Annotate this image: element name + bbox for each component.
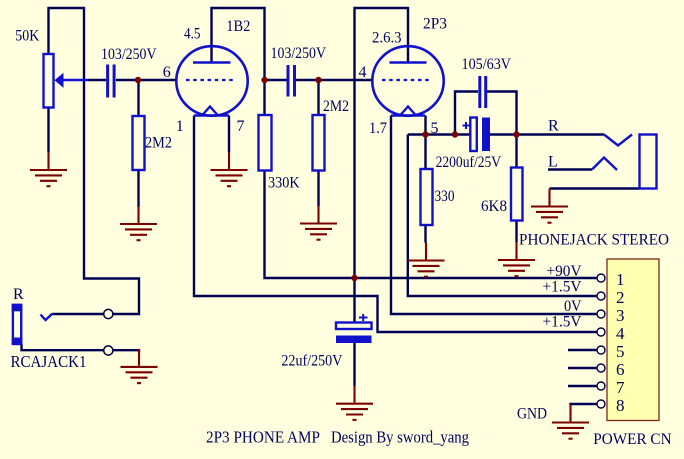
svg-text:+1.5V: +1.5V	[543, 314, 582, 331]
svg-text:50K: 50K	[15, 28, 39, 45]
svg-text:4.5: 4.5	[184, 26, 201, 43]
svg-text:330: 330	[435, 188, 455, 205]
svg-text:103/250V: 103/250V	[101, 46, 157, 63]
svg-text:+1.5V: +1.5V	[543, 278, 582, 295]
svg-text:2: 2	[616, 288, 625, 307]
svg-text:L: L	[548, 154, 558, 171]
svg-text:8: 8	[616, 396, 625, 415]
svg-text:22uf/250V: 22uf/250V	[281, 353, 342, 370]
svg-text:330K: 330K	[268, 175, 300, 192]
svg-text:0V: 0V	[564, 298, 582, 315]
svg-text:2P3 PHONE AMP: 2P3 PHONE AMP	[206, 428, 320, 447]
svg-text:2.6.3: 2.6.3	[372, 30, 402, 47]
svg-text:2M2: 2M2	[145, 135, 172, 152]
svg-text:4: 4	[616, 324, 625, 343]
svg-text:R: R	[548, 118, 559, 135]
svg-text:2P3: 2P3	[423, 16, 447, 33]
svg-text:5: 5	[431, 120, 439, 137]
svg-text:6: 6	[163, 64, 171, 81]
svg-text:1: 1	[616, 270, 625, 289]
svg-text:6K8: 6K8	[481, 198, 507, 215]
svg-text:2200uf/25V: 2200uf/25V	[436, 154, 502, 171]
svg-text:4: 4	[359, 64, 367, 81]
svg-text:2M2: 2M2	[323, 98, 349, 115]
svg-text:5: 5	[616, 342, 625, 361]
svg-text:105/63V: 105/63V	[462, 56, 512, 73]
svg-text:7: 7	[616, 378, 625, 397]
svg-text:1.7: 1.7	[369, 120, 387, 137]
svg-text:6: 6	[616, 360, 625, 379]
svg-text:RCAJACK1: RCAJACK1	[11, 352, 87, 371]
svg-text:3: 3	[616, 306, 625, 325]
svg-text:1: 1	[176, 118, 184, 135]
svg-text:1B2: 1B2	[226, 18, 250, 35]
svg-text:7: 7	[237, 118, 245, 135]
svg-text:POWER CN: POWER CN	[593, 431, 672, 448]
svg-text:PHONEJACK STEREO: PHONEJACK STEREO	[519, 231, 669, 248]
svg-text:GND: GND	[517, 405, 547, 422]
svg-text:R: R	[13, 286, 24, 303]
svg-text:Design By sword_yang: Design By sword_yang	[331, 428, 469, 447]
svg-text:103/250V: 103/250V	[271, 45, 327, 62]
